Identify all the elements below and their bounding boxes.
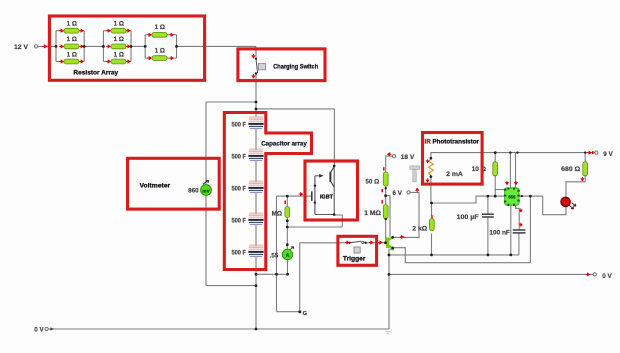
junction 2k bottom on line A — [430, 254, 433, 257]
junction below discharge resistor — [286, 219, 289, 222]
junction output feedback — [529, 195, 532, 198]
svg-text:500 F: 500 F — [232, 121, 247, 128]
svg-text:1 Ω: 1 Ω — [155, 48, 165, 55]
wire voltmeter branch bottom to cap chain — [206, 285, 256, 287]
current arrow at 100nF top — [520, 223, 522, 226]
svg-text:Voltmeter: Voltmeter — [140, 183, 171, 190]
wire trigger to transistor base — [365, 242, 385, 244]
wire 555 output to LED cathode — [543, 196, 566, 215]
junction cap bottom node — [255, 273, 258, 276]
wire gate node down to G terminal — [276, 196, 278, 312]
junction divider tap — [384, 194, 387, 197]
current arrow at 9V rail — [587, 151, 591, 154]
annotation box Resistor Array — [49, 16, 204, 80]
wire between capacitor C3 and C4 — [255, 193, 257, 214]
junction 9V rail / 555 supply — [516, 151, 518, 153]
svg-text:0 V: 0 V — [34, 326, 44, 333]
wire group3 row1 left stub — [145, 34, 152, 36]
resistor R9 1M-ohm discharge — [285, 207, 290, 218]
wire 555 pin 8 to 9V rail — [509, 153, 511, 188]
wire capacitor C5 to bottom 0V bus — [255, 257, 257, 329]
wire IGBT collector vertical — [333, 109, 335, 166]
current arrow 555 pin4 — [515, 181, 517, 185]
junction 9V rail / 10 ohm — [494, 151, 497, 154]
junction emitter / 0V right rail — [388, 273, 391, 276]
wire 10 ohm bottom to 555 left node — [494, 176, 496, 196]
resistor R8 1-ohm group3 — [152, 56, 167, 61]
resistor R4 1-ohm group2 — [111, 28, 126, 33]
junction cap top / IGBT collector node — [255, 108, 258, 111]
svg-text:IGBT: IGBT — [320, 194, 334, 200]
annotation box IGBT — [305, 161, 358, 220]
wire phototransistor emitter down — [430, 177, 432, 203]
wire 100uF bottom lead — [487, 217, 489, 255]
svg-text:0 V: 0 V — [602, 273, 612, 280]
junction group3 left — [144, 45, 147, 48]
wire phototransistor node to 555 threshold pins — [431, 196, 505, 203]
ammeter M2 (0.55 A) — [282, 249, 292, 259]
svg-text:9 V: 9 V — [603, 151, 613, 158]
annotation box Capacitor array (polygon with label bump) — [224, 113, 311, 270]
svg-text:1 Ω: 1 Ω — [155, 24, 165, 31]
wire top 9V rail — [431, 153, 596, 159]
wire transistor collector to 6V terminal — [393, 192, 420, 237]
wire group3 row2 left stub — [145, 57, 152, 59]
junction 9V rail pin8 — [509, 151, 511, 153]
current arrow trigger left — [345, 241, 349, 244]
junction voltmeter bottom node — [255, 284, 258, 287]
svg-text:500 F: 500 F — [232, 217, 247, 224]
resistor R14 680-ohm — [583, 162, 588, 176]
wire 680 ohm to LED anode — [566, 176, 585, 197]
wire group1 left bus — [55, 31, 57, 62]
transistor Q1 NPN (green) — [385, 236, 394, 251]
current arrow below 680 ohm — [581, 177, 583, 181]
wire 12V source to resistor array — [38, 45, 56, 47]
terminal 6V post — [407, 191, 410, 194]
wire 9V rail to 680 ohm resistor — [584, 153, 586, 162]
capacitor C5 500F supercapacitor — [248, 245, 263, 256]
svg-text:1 Ω: 1 Ω — [114, 36, 124, 43]
capacitor C7 100nF — [513, 230, 526, 233]
wire group1 row1 left stub — [56, 30, 64, 32]
annotation box IR Phototransistor — [423, 133, 483, 185]
wire group2 right bus — [130, 31, 132, 62]
junction gate / discharge resistor — [286, 195, 289, 198]
wire IGBT emitter jog to return — [334, 215, 342, 227]
svg-text:1 Ω: 1 Ω — [67, 36, 77, 43]
junction group3 right — [175, 45, 178, 48]
current arrow group1 row2 right — [79, 45, 83, 48]
current arrow on 12V wire — [42, 45, 46, 48]
current arrow on collector jog — [400, 236, 404, 239]
wire 2k ohm bottom to ground line A — [431, 234, 433, 255]
current arrow trigger right — [369, 241, 373, 244]
svg-text:Trigger: Trigger — [343, 255, 366, 262]
wire 9V rail to 10 ohm resistor — [494, 153, 496, 162]
red tick above discharge resistor — [284, 201, 286, 204]
svg-text:mV: mV — [202, 188, 210, 193]
capacitor C1 500F supercapacitor — [248, 117, 263, 128]
wire node to 2k ohm resistor — [431, 203, 433, 216]
wire emitter jog to 555 output feedback — [393, 196, 531, 263]
wire 555 pin 4 to 9V rail — [515, 153, 517, 188]
junction emitter return — [286, 226, 289, 229]
wire 50 ohm to 1M ohm — [385, 186, 387, 205]
svg-text:100 µF: 100 µF — [457, 214, 479, 221]
red tick above 50 ohm — [383, 167, 385, 170]
junction group2 right — [130, 45, 133, 48]
wire group2 row1 right stub — [126, 30, 131, 32]
svg-text:1 Ω: 1 Ω — [67, 51, 77, 58]
current arrow before base — [378, 241, 382, 244]
junction at G terminal — [299, 311, 301, 313]
current arrow above switch — [252, 54, 255, 58]
junction emitter / line A — [388, 254, 391, 257]
current arrow at phototransistor top — [426, 159, 428, 162]
wire 100nF bottom lead — [518, 234, 520, 255]
IGBT U2 symbol — [312, 165, 336, 216]
terminal 0V left post — [45, 327, 48, 330]
resistor R2 1-ohm group1 — [64, 44, 79, 49]
current arrow group3 row2 left — [147, 57, 151, 60]
IC U1 555 timer — [504, 187, 520, 206]
wire trigger left — [300, 242, 350, 244]
junction below 50 ohm — [385, 187, 387, 189]
svg-text:680 Ω: 680 Ω — [561, 166, 580, 173]
wire group1 row3 left stub — [56, 61, 64, 63]
wire group2 row1 left stub — [103, 30, 111, 32]
wire resistor group1 to group2 — [84, 45, 103, 47]
switch handle graphic near 18V — [410, 166, 420, 182]
junction group2 left — [102, 45, 105, 48]
annotation box Charging Switch — [238, 49, 325, 81]
wire charging switch bottom to capacitor array — [255, 74, 257, 118]
resistor R12 2k-ohm — [429, 219, 434, 231]
svg-text:Capacitor array: Capacitor array — [261, 140, 307, 147]
switch S1 charging switch — [255, 58, 266, 75]
wire group1 row3 right stub — [79, 61, 84, 63]
svg-text:10 Ω: 10 Ω — [472, 166, 486, 173]
wire group3 right bus — [176, 35, 178, 58]
junction 100uF top — [487, 195, 490, 198]
current arrow group1 row1 left — [59, 29, 63, 32]
svg-text:6 V: 6 V — [392, 190, 402, 197]
wire 555 output right — [519, 195, 543, 197]
junction 100uF bottom — [487, 254, 490, 257]
polarity arrow above voltmeter — [203, 180, 209, 184]
current arrow below switch — [252, 74, 255, 78]
arrow marker at 0V left — [50, 327, 54, 330]
current arrow near 18V — [388, 153, 392, 156]
svg-text:1 Ω: 1 Ω — [114, 21, 124, 28]
svg-text:A: A — [286, 253, 290, 259]
svg-text:2 kΩ: 2 kΩ — [412, 226, 427, 233]
wire between capacitor C1 and C2 — [255, 129, 257, 150]
svg-text:Charging Switch: Charging Switch — [273, 64, 318, 71]
wire resistor group3 to charging switch — [177, 45, 257, 47]
junction 9V rail / 680 ohm — [584, 151, 586, 153]
scope marker near bottom corner — [386, 332, 391, 336]
junction group1 left — [55, 45, 58, 48]
wire bottom 0V bus — [48, 328, 389, 330]
wire capacitor top node to IGBT collector (horizontal) — [256, 108, 334, 110]
junction group1 right — [83, 45, 86, 48]
wire IGBT gate horizontal — [277, 195, 312, 197]
junction pin1 ground — [509, 254, 512, 257]
wire gate node to 1M-ohm discharge resistor — [286, 196, 288, 206]
wire group3 row2 right stub — [167, 57, 177, 59]
terminal 9V post — [595, 151, 598, 154]
current arrow group2 row3 left — [106, 60, 110, 63]
wire discharge resistor to ammeter — [286, 218, 288, 250]
wire between capacitor C4 and C5 — [255, 225, 257, 246]
current arrow near 6V — [416, 188, 419, 192]
wire group2 row3 right stub — [126, 61, 131, 63]
resistor R6 1-ohm group2 — [111, 59, 126, 64]
current arrow group2 row1 right — [126, 29, 130, 32]
wire transistor emitter down to 0V bus — [388, 249, 390, 329]
current arrow group1 row3 left — [59, 60, 63, 63]
svg-text:1 Ω: 1 Ω — [67, 21, 77, 28]
svg-text:G: G — [303, 311, 307, 317]
junction 555 output — [521, 195, 523, 197]
wire group1 row1 right stub — [79, 30, 84, 32]
wire group2 row3 left stub — [103, 61, 111, 63]
current arrow group2 row2 left — [106, 45, 110, 48]
current arrow group3 row2 right — [169, 57, 173, 60]
svg-text:500 F: 500 F — [232, 153, 247, 160]
annotation box Voltmeter — [128, 158, 220, 209]
resistor R5 1-ohm group2 — [111, 44, 126, 49]
svg-text:500 F: 500 F — [232, 249, 247, 256]
wire junction to voltmeter branch (top) — [206, 101, 256, 103]
junction switch-voltmeter node — [255, 101, 258, 104]
resistor R10 50-ohm — [383, 172, 388, 186]
junction 555 left node — [494, 195, 497, 198]
svg-text:1 Ω: 1 Ω — [114, 51, 124, 58]
junction ammeter return — [286, 273, 289, 276]
wire 1M ohm down to trigger node — [385, 219, 387, 243]
terminal 0V right post — [593, 273, 596, 276]
red tick above 2k ohm — [431, 215, 433, 218]
current arrow group1 row1 right — [79, 29, 83, 32]
svg-text:1 MΩ: 1 MΩ — [364, 210, 381, 217]
current arrow group2 row2 right — [126, 45, 130, 48]
phototransistor PT1 (IR) — [428, 157, 433, 178]
resistor R13 10-ohm — [493, 162, 498, 176]
capacitor C2 500F supercapacitor — [248, 149, 263, 160]
terminal 12V post — [34, 45, 37, 48]
wire down to charging switch top — [255, 46, 257, 58]
svg-text:555: 555 — [508, 195, 516, 200]
resistor R11 1M-ohm — [383, 205, 388, 219]
svg-text:18 V: 18 V — [401, 154, 415, 161]
current arrow at 0V right — [586, 273, 590, 276]
red tick below 50 ohm — [381, 189, 383, 192]
wire divider tap down to transistor collector — [386, 196, 390, 237]
wire 100uF top lead — [487, 196, 489, 214]
svg-text:.55: .55 — [270, 252, 279, 259]
svg-text:2 mA: 2 mA — [446, 171, 463, 178]
current arrow 555 pin8 — [506, 181, 508, 185]
terminal 18V post — [392, 155, 395, 158]
current arrow on gate wire — [299, 193, 303, 196]
junction above ammeter — [286, 243, 289, 246]
wire group3 row1 right stub — [167, 34, 177, 36]
current arrow group2 row1 left — [106, 29, 110, 32]
resistor R3 1-ohm group1 — [64, 59, 79, 64]
wire IGBT emitter return horizontal — [287, 226, 342, 228]
svg-text:100 nF: 100 nF — [489, 229, 510, 236]
push switch S2 trigger — [348, 241, 367, 253]
current arrow group3 row1 right — [169, 33, 173, 36]
svg-text:500 F: 500 F — [232, 185, 247, 192]
wire cap bottom node to ammeter return jog — [256, 273, 288, 275]
red tick above 1M ohm — [381, 200, 383, 203]
svg-text:IR Phototransistor: IR Phototransistor — [425, 138, 480, 145]
svg-text:Resistor Array: Resistor Array — [73, 69, 118, 76]
voltmeter M1 (860 mV) — [201, 185, 212, 196]
wire group1 right bus — [83, 31, 85, 62]
junction on gate drop wire — [275, 273, 278, 276]
wire trigger left leg down to G node — [299, 243, 301, 312]
junction 0V bus / cap chain — [255, 328, 258, 331]
wire 0V right rail — [389, 273, 595, 275]
red tick before 9V terminal — [592, 151, 594, 154]
polarity arrow above ammeter — [290, 247, 293, 250]
wire stub to 555 pin 7 — [495, 189, 505, 191]
svg-text:860: 860 — [188, 187, 199, 194]
annotation box Trigger — [338, 236, 377, 265]
wire group2 left bus — [102, 31, 104, 62]
wire between capacitor C2 and C3 — [255, 161, 257, 182]
wire group3 left bus — [144, 35, 146, 58]
resistor R7 1-ohm group3 — [152, 32, 167, 37]
svg-text:12 V: 12 V — [14, 44, 29, 51]
current arrow group2 row3 right — [126, 60, 130, 63]
wire ammeter bottom — [287, 259, 289, 274]
current arrow group3 row1 left — [147, 33, 151, 36]
wire 18V terminal to 50 ohm — [386, 156, 393, 172]
capacitor C3 500F supercapacitor — [248, 181, 263, 192]
wire 555 pin 5 to 100nF top — [516, 205, 520, 229]
current arrow at phototransistor bottom — [426, 178, 428, 181]
junction phototransistor emitter node — [430, 202, 433, 205]
current arrow 555 pin5 — [520, 208, 522, 211]
wire voltmeter branch vertical — [205, 102, 207, 286]
resistor R1 1-ohm group1 — [64, 28, 79, 33]
junction below 1M ohm — [385, 218, 387, 220]
current arrow group1 row3 right — [79, 60, 83, 63]
junction trigger / divider node — [384, 241, 387, 244]
node G terminal square — [299, 311, 302, 314]
LED D1 red — [561, 197, 576, 209]
wire ground line A to 100nF corner — [389, 254, 519, 256]
current arrow group1 row2 left — [59, 45, 63, 48]
wire to G terminal square — [277, 311, 300, 313]
svg-text:MΩ: MΩ — [272, 210, 282, 217]
capacitor C4 500F supercapacitor — [248, 213, 263, 224]
wire 555 pin 1 to ground line A — [510, 205, 512, 255]
wire resistor group2 to group3 — [131, 45, 145, 47]
svg-text:50 Ω: 50 Ω — [365, 178, 379, 185]
capacitor C6 100uF — [482, 214, 494, 217]
